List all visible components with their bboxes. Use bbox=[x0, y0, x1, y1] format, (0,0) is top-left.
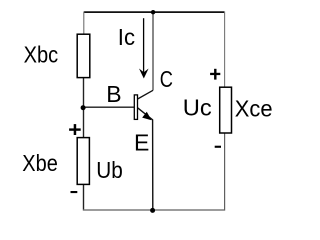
svg-text:Xbc: Xbc bbox=[24, 42, 59, 68]
svg-text:Ub: Ub bbox=[96, 157, 123, 183]
resistor Xbc bbox=[77, 34, 90, 77]
resistor Xbe (source Ub) bbox=[77, 138, 89, 185]
wire left rail upper bbox=[83, 12, 85, 35]
svg-text:Uc: Uc bbox=[183, 95, 212, 121]
minus sign right (Uc -) bbox=[215, 146, 221, 148]
wire left rail lower bbox=[83, 184, 85, 209]
wire collector lead vertical bbox=[152, 12, 154, 90]
wire base lead bbox=[84, 106, 135, 108]
node junction base bbox=[81, 105, 86, 110]
plus sign right (Uc +) bbox=[210, 69, 220, 80]
svg-text:C: C bbox=[160, 66, 173, 92]
wire left rail middle bbox=[83, 77, 85, 138]
node junction bottom bbox=[150, 208, 155, 213]
svg-text:B: B bbox=[106, 81, 121, 107]
current arrow Ic bbox=[143, 18, 145, 73]
plus sign left (Ub +) bbox=[69, 124, 81, 135]
wire bottom rail left bbox=[83, 209, 153, 211]
svg-text:Xce: Xce bbox=[235, 96, 273, 122]
minus sign left (Ub -) bbox=[71, 191, 78, 193]
svg-text:Xbe: Xbe bbox=[22, 150, 58, 176]
resistor Xce (source Uc) bbox=[220, 87, 232, 133]
wire emitter lead bbox=[138, 108, 153, 210]
node junction top bbox=[151, 10, 155, 14]
svg-text:E: E bbox=[134, 130, 149, 156]
svg-text:Ic: Ic bbox=[118, 24, 135, 50]
wire top rail bbox=[84, 11, 225, 13]
emitter arrowhead bbox=[142, 112, 151, 121]
transistor Q1 base bar bbox=[134, 95, 137, 120]
wire bottom rail right bbox=[153, 133, 225, 210]
wire right rail upper bbox=[224, 12, 226, 88]
wire collector lead diagonal bbox=[138, 90, 153, 99]
